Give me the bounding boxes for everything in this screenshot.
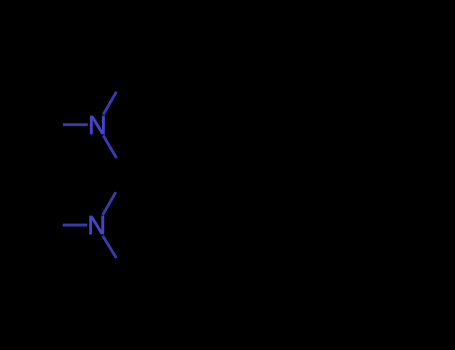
svg-text:N: N (87, 212, 105, 240)
svg-text:N: N (88, 112, 106, 140)
